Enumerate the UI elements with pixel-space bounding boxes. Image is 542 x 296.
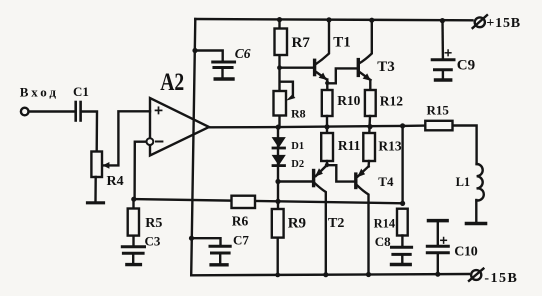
wire R10 to R11	[326, 116, 328, 133]
capacitor C1	[76, 102, 81, 121]
wire feedback bus R5 to R14 node	[134, 199, 403, 203]
svg-text:Вход: Вход	[20, 84, 59, 99]
node T2 emitter junction	[325, 163, 329, 167]
capacitor C7	[210, 246, 230, 253]
wire output bus from op-amp to R15/L1	[209, 126, 425, 128]
potentiometer R4	[91, 152, 109, 202]
svg-text:T4: T4	[378, 174, 394, 189]
node output bus D1	[276, 125, 281, 130]
svg-text:T3: T3	[377, 59, 395, 75]
ground bar below C7	[211, 263, 227, 266]
ground bar below C8	[392, 263, 411, 266]
node T2 base tap on diode column	[275, 179, 280, 184]
resistor R11	[321, 133, 333, 161]
plus polarity mark C10	[441, 238, 447, 244]
wire column R7/R8/D1/D2/R9	[278, 20, 280, 127]
svg-text:R15: R15	[427, 102, 450, 117]
transistor T4	[356, 166, 369, 274]
wire R4 wiper to op-amp + input	[104, 111, 150, 165]
plus polarity mark C9	[445, 50, 451, 56]
ground bar below L1	[467, 222, 486, 226]
wire input to C1	[29, 110, 74, 112]
trimmer R8 wiper	[281, 82, 293, 96]
wire op-amp inverting input to feedback bus	[135, 142, 147, 200]
svg-text:R6: R6	[232, 214, 249, 229]
svg-text:-15В: -15В	[484, 271, 518, 286]
svg-text:C9: C9	[457, 58, 475, 74]
svg-text:R12: R12	[380, 93, 403, 108]
svg-text:R4: R4	[107, 174, 124, 189]
node rail T3 collector	[369, 18, 374, 23]
svg-text:R10: R10	[337, 93, 360, 108]
ground bar below C3	[127, 263, 140, 266]
wire T1 emitter to T3 base	[327, 68, 357, 83]
svg-text:R13: R13	[378, 139, 401, 154]
svg-text:D1: D1	[291, 141, 304, 152]
resistor R14	[397, 209, 408, 236]
wire R13 to T4 emitter	[367, 161, 370, 167]
svg-text:R11: R11	[338, 138, 361, 153]
ground bar above C10	[429, 219, 448, 223]
resistor R13	[363, 133, 375, 161]
node feedback bus right end R14	[400, 201, 405, 206]
transistor T1	[315, 20, 329, 90]
transistor T3	[358, 20, 372, 90]
wire R12 to R13	[368, 116, 371, 133]
svg-text:+15В: +15В	[486, 16, 521, 31]
ground bar below R4	[88, 201, 104, 204]
plus input marking	[156, 107, 162, 113]
wire C6 branch from supply line	[195, 51, 223, 61]
node T1 base tap	[277, 65, 282, 70]
resistor R9	[272, 209, 284, 238]
svg-text:C1: C1	[73, 84, 89, 99]
diode D2	[273, 156, 285, 166]
wire C7 branch from supply line	[192, 238, 221, 244]
node T1 emitter junction	[325, 81, 329, 85]
svg-text:C3: C3	[145, 234, 161, 249]
ground bar below C9	[436, 78, 451, 81]
wire T2 emitter to T4 base	[327, 165, 355, 181]
resistor R12	[365, 90, 376, 116]
node C7 tap on supply line	[189, 236, 194, 241]
minus input marking	[156, 141, 162, 143]
svg-text:T1: T1	[333, 35, 351, 51]
node bottom rail C10	[435, 272, 440, 277]
capacitor C10	[427, 222, 448, 274]
wire -15V bottom rail	[191, 274, 469, 275]
node C6 tap on supply line	[192, 48, 197, 53]
svg-text:R7: R7	[292, 35, 311, 51]
svg-text:C10: C10	[454, 245, 478, 260]
node rail R7	[277, 17, 282, 22]
wire T2 base	[278, 180, 312, 182]
wire C1 to R4 top	[82, 112, 97, 152]
resistor R15	[425, 121, 452, 131]
terminal -15V	[469, 269, 483, 281]
svg-text:R14: R14	[374, 216, 396, 230]
node output bus drop to R14	[400, 123, 405, 128]
svg-text:R5: R5	[145, 216, 162, 231]
svg-text:R9: R9	[288, 216, 306, 232]
ground bar below C6	[215, 77, 233, 80]
svg-text:D2: D2	[291, 159, 304, 170]
node feedback bus left end	[131, 197, 136, 202]
transistor T2	[314, 165, 327, 275]
capacitor C9	[432, 20, 454, 78]
resistor R10	[322, 90, 333, 116]
inductor L1	[476, 164, 483, 222]
svg-text:C6: C6	[235, 46, 251, 61]
terminal +15V	[473, 15, 487, 28]
trimmer R8	[274, 91, 287, 116]
svg-text:R8: R8	[291, 107, 306, 121]
wire output node down to R14	[401, 126, 403, 203]
svg-text:A2: A2	[160, 69, 184, 96]
node bottom rail R9	[275, 273, 280, 278]
resistor R7	[275, 29, 288, 56]
node bottom rail T4	[366, 272, 371, 277]
node inverting input bubble	[147, 138, 154, 145]
wire +15V top rail	[195, 19, 472, 20]
svg-text:C7: C7	[233, 233, 249, 248]
diode D1	[273, 138, 285, 148]
node feedback bus diode column	[275, 199, 280, 204]
svg-text:T2: T2	[328, 216, 344, 231]
node bottom rail T2	[323, 272, 328, 277]
node rail T1 collector	[326, 17, 331, 22]
svg-text:C8: C8	[375, 234, 391, 249]
resistor R6	[232, 196, 256, 208]
node rail C9	[440, 18, 445, 23]
node output bus R10/R11	[324, 124, 329, 129]
capacitor C8	[392, 247, 412, 254]
wire T1 base	[280, 66, 314, 68]
wire R11 to T2 emitter node	[326, 161, 328, 165]
capacitor C3	[122, 247, 144, 254]
svg-text:L1: L1	[456, 175, 471, 189]
wire op-amp supply vertical (top rail to bottom rail through A2)	[191, 19, 195, 275]
resistor R5	[128, 199, 139, 245]
node input terminal	[21, 108, 29, 116]
capacitor C6	[213, 62, 235, 68]
node output bus R12/R13	[367, 124, 372, 129]
op-amp U A2 triangle	[150, 98, 209, 156]
